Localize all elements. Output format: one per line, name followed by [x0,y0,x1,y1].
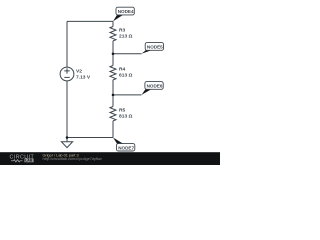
junction dot node5 [112,53,115,56]
node flag NODE4 [113,7,134,21]
resistor R3 [110,27,133,41]
svg-text:http://circuitlab.com/c/pu4ge7: http://circuitlab.com/c/pu4ge7dyfkw [43,157,102,161]
wire bottom horizontal [67,137,113,139]
footer CircuitLab logo [10,154,35,162]
voltage source V2 [60,67,91,81]
svg-text:613 Ω: 613 Ω [119,72,133,78]
svg-text:NODE6: NODE6 [147,83,163,88]
resistor R5 [110,107,133,121]
svg-text:213 Ω: 213 Ω [119,33,133,39]
wire right stub bottom [112,121,114,138]
node flag NODE7 [113,138,135,152]
footer url line [43,157,102,161]
svg-text:R5: R5 [119,108,126,114]
node flag NODE6 [142,82,164,95]
node flag NODE5 [142,43,164,54]
svg-text:NODE7: NODE7 [118,145,134,150]
wire right between R4 and node6 junction [112,80,114,107]
wire tap NODE5 [113,53,142,55]
resistor R4 [110,66,133,80]
wire top horizontal [67,20,113,22]
footer credit line [43,154,79,158]
footer bar [0,152,220,165]
svg-text:V2: V2 [76,69,82,75]
svg-text:813 Ω: 813 Ω [119,113,133,119]
svg-text:NODE4: NODE4 [118,9,134,14]
svg-text:NODE5: NODE5 [147,44,163,49]
wire left vertical upper [66,21,68,67]
wire right between R3 and node5 junction [112,41,114,66]
wire left vertical lower [66,81,68,138]
wire tap NODE6 [113,94,142,96]
svg-text:LAB: LAB [25,159,33,163]
svg-text:R4: R4 [119,67,126,73]
ground [61,138,72,148]
junction dot bottom-left node [66,136,69,139]
wire right stub top [112,21,114,26]
svg-text:R3: R3 [119,28,126,34]
svg-text:7.13 V: 7.13 V [76,74,91,80]
junction dot node6 [112,94,115,97]
